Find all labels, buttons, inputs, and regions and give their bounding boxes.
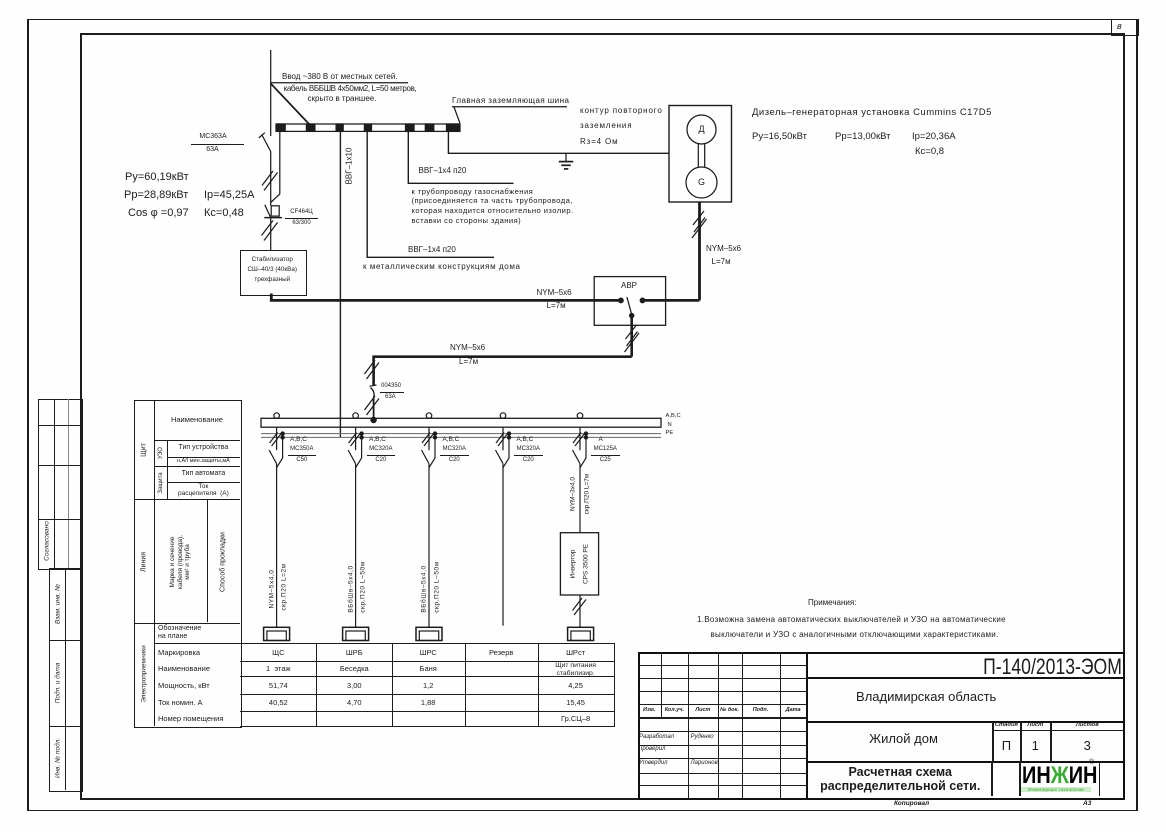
branch ШРБ switch blade	[348, 450, 356, 464]
note underline for ввод label	[271, 82, 409, 84]
bus input junction dot	[371, 417, 376, 422]
title block main divider	[806, 652, 808, 798]
data grid outer	[240, 643, 614, 727]
branch ШРст feeder line to inverter	[579, 464, 581, 533]
header rows	[154, 440, 241, 441]
branch ШРБ feeder line	[355, 464, 357, 628]
АВР switch blade	[627, 297, 634, 318]
АВР right contact dot	[640, 298, 645, 303]
breaker 004350	[370, 385, 377, 398]
title block left rows	[638, 665, 806, 666]
АВР left contact dot	[619, 298, 624, 303]
sheet name	[808, 765, 993, 779]
notes heading	[808, 598, 856, 607]
generator unit box	[669, 106, 732, 203]
col ШРст values	[538, 648, 614, 657]
Подп. и дата vertical label	[54, 663, 61, 704]
wire below breaker	[270, 152, 272, 206]
project title	[811, 731, 996, 746]
branch ШРБ labels	[369, 436, 386, 443]
branch ШРст cable marking rotated	[570, 477, 577, 511]
Линия group label	[141, 552, 148, 572]
Формат А3 label	[1083, 800, 1091, 807]
branch ШРС panel box	[416, 627, 442, 640]
ГЗШ label leader	[452, 107, 567, 124]
Способ прокладки label	[220, 532, 227, 592]
branch ШРС tap circle	[426, 413, 432, 419]
branch ШРБ tap circle	[353, 413, 359, 419]
wire to gas pipe	[408, 132, 513, 184]
note line 1	[697, 615, 1006, 624]
repeat earthing note	[580, 106, 663, 115]
Тип автомата	[167, 470, 241, 477]
ИНЖИН logo	[1022, 762, 1097, 790]
branch Резерв feeder line	[502, 464, 504, 626]
logo cell dividers	[991, 762, 992, 796]
wire to metal constructions	[367, 132, 494, 258]
cable hatch marks	[692, 211, 707, 238]
branch ШРст tap circle	[577, 413, 583, 419]
wire: breaker to bus	[373, 398, 375, 420]
gas pipe note	[412, 187, 574, 227]
branch ЩС phase drop	[276, 427, 278, 450]
title block left columns	[661, 652, 662, 720]
title block right part rows	[806, 677, 1125, 679]
branch ЩС switch blade	[269, 450, 277, 464]
cable hatch marks	[365, 360, 380, 379]
branch Резерв labels	[516, 436, 533, 443]
logo subtext	[1021, 787, 1091, 792]
branch ШРБ panel box	[343, 627, 369, 640]
Наименование header	[154, 415, 241, 424]
col ЩС values	[240, 648, 316, 657]
group column divider	[154, 400, 155, 726]
inverter box	[560, 533, 598, 595]
inverter rotated labels	[569, 549, 576, 578]
Защита group label	[158, 472, 164, 493]
panel distribution bus	[261, 418, 661, 427]
МС363А label	[186, 133, 240, 140]
Тип устройства	[167, 444, 241, 451]
PE conductor line	[261, 436, 661, 438]
cable hatch marks	[625, 325, 640, 352]
col ШРС values	[392, 648, 464, 657]
branch ШРС phase drop	[428, 427, 430, 450]
branch ШРст switch blade	[573, 450, 581, 464]
branch ШРС switch blade	[422, 450, 430, 464]
note line 2	[711, 630, 999, 639]
Взам. инв. № vertical label	[54, 584, 61, 624]
generator circle Д	[687, 115, 716, 144]
Наименование row label	[158, 664, 210, 673]
Мощность row label	[158, 681, 210, 690]
wire: incoming feeder vertical	[270, 50, 272, 136]
left agreement stamp table (Согласовано)	[38, 399, 83, 570]
branch ШРС hatch	[422, 433, 434, 447]
signature rows	[639, 734, 674, 740]
АВР box	[594, 277, 665, 326]
branch Резерв phase drop	[502, 427, 504, 450]
branch Резерв N/PE tap	[503, 432, 511, 468]
ввод note line 2	[284, 84, 417, 93]
CF464Ц label	[286, 209, 317, 215]
col ШРБ values	[316, 648, 392, 657]
ВВГ-1х4 п20 label (metal constructions)	[408, 245, 456, 254]
Ток расцепителя	[167, 483, 241, 498]
diesel generator description	[752, 107, 992, 118]
header table outer	[134, 400, 242, 728]
N conductor line	[261, 433, 661, 435]
cable hatch marks	[365, 396, 380, 415]
branch ШРБ phase drop	[355, 427, 357, 450]
format cell text	[1117, 21, 1122, 31]
branch ШРС feeder line	[428, 464, 430, 628]
generator shaft	[698, 144, 704, 167]
RCD CF464Ц symbol	[264, 205, 282, 218]
NYM label stabilizer line	[537, 288, 572, 297]
Согласовано vertical label	[44, 521, 51, 561]
branch Резерв hatch	[496, 433, 508, 447]
stabilizer box	[240, 250, 307, 296]
Маркировка label	[158, 648, 200, 657]
Марка и сечение кабеля label	[169, 535, 192, 589]
мин.защиты label	[167, 458, 241, 464]
wire to repeat earthing / generator	[448, 132, 669, 154]
ввод note line 3	[308, 94, 377, 103]
breaker 004350 label	[381, 383, 401, 389]
bus phase labels	[666, 413, 681, 419]
Электроприемники group label	[141, 645, 148, 703]
ГЗШ label	[452, 96, 569, 105]
ввод note line 1	[282, 72, 398, 81]
branch ЩС tap circle	[274, 413, 280, 419]
branch ШРС N/PE tap	[429, 432, 437, 468]
outer drawing border frame	[27, 19, 1137, 21]
branch ЩС feeder line	[276, 464, 278, 628]
wire inverter to panel	[579, 595, 581, 627]
branch ЩС hatch	[270, 433, 282, 447]
top-right format cell	[1111, 19, 1139, 36]
branch ШРБ cable marking rotated	[347, 565, 354, 612]
wire: N tap from bus to RCD	[271, 130, 280, 203]
Инв. № подл. vertical label	[54, 738, 61, 778]
branch ШРст labels	[599, 436, 603, 443]
АВР label	[609, 281, 649, 290]
wire: АВР right to generator	[643, 299, 700, 302]
Номер помещения label	[158, 714, 223, 723]
main earthing bus ГЗШ	[276, 124, 460, 131]
branch ШРст N/PE tap	[580, 432, 588, 468]
wire below RCD	[270, 218, 272, 250]
cable hatch marks	[262, 171, 278, 191]
УЗО/Защита sub column	[167, 440, 168, 500]
generator circle G	[686, 167, 717, 198]
УЗО group label	[158, 447, 164, 459]
cable hatch marks	[573, 598, 587, 615]
load figures column 1	[125, 171, 189, 183]
Щит group label	[141, 443, 148, 457]
ВВГ-1х10 rotated label	[344, 148, 353, 185]
Линия sub columns	[207, 499, 208, 622]
branch Резерв tap circle	[500, 413, 506, 419]
generator circle letters	[694, 124, 709, 134]
wire: generator to АВР	[698, 202, 701, 300]
document number	[983, 654, 1096, 680]
stage/sheet grid	[992, 722, 993, 763]
branch ЩС cable marking rotated	[268, 570, 275, 609]
wire: feeder diagonal to main earthing bus	[271, 84, 310, 125]
branch Резерв switch blade	[496, 450, 504, 464]
ground symbol	[559, 153, 574, 169]
cable hatch marks	[262, 221, 278, 241]
branch ШРС cable marking rotated	[421, 565, 428, 612]
branch ЩС labels	[290, 436, 307, 443]
wire: АВР output down	[630, 316, 633, 357]
Копировал label	[894, 800, 929, 807]
ВВГ-1х4 п20 label (gas pipe)	[419, 166, 467, 175]
wire ВВГ-1х10 down to PE	[339, 132, 341, 438]
col Резерв	[465, 648, 538, 657]
left frame stamp strip (Взам.инв.№ / Подп. и дата / Инв.№ подл.)	[49, 568, 83, 792]
branch ШРС labels	[442, 436, 459, 443]
branch ШРст panel box	[568, 627, 594, 640]
branch ШРст hatch	[573, 433, 585, 447]
NYM label generator drop	[706, 244, 741, 253]
NYM label АВР to bus	[450, 343, 485, 352]
branch ШРБ hatch	[349, 433, 361, 447]
breaker МС363А	[259, 133, 271, 152]
branch ШРст phase drop	[579, 427, 581, 450]
wire: stabilizer to АВР	[271, 294, 621, 301]
title block outer	[638, 652, 1126, 800]
wire: АВР to panel bus	[374, 357, 632, 386]
revision header labels	[638, 707, 661, 713]
metal constructions note	[363, 262, 521, 271]
load figures column 2	[204, 189, 254, 201]
object name	[808, 689, 1045, 704]
branch ШРБ N/PE tap	[356, 432, 364, 468]
Обозначение на плане label	[158, 625, 238, 642]
logo registered mark	[1089, 759, 1094, 766]
Ток номин row label	[158, 698, 203, 707]
branch ЩС panel box	[264, 627, 290, 640]
branch ЩС N/PE tap	[277, 432, 285, 468]
